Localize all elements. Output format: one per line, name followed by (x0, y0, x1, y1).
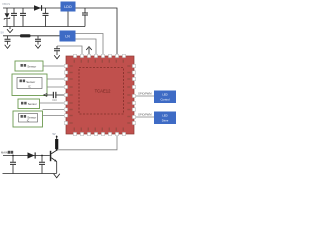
LN regulator U2 (60, 31, 76, 42)
wire emitter down (56, 162, 58, 174)
capacitor C4 (82, 8, 88, 27)
node junction C9 (41, 155, 43, 157)
svg-text:LED: LED (162, 93, 167, 97)
power arrow VCC pin (86, 47, 92, 54)
LED driver block lower (154, 112, 176, 125)
LDO regulator U1 (61, 2, 76, 12)
wire sensor4 to pin lower (43, 115, 65, 117)
svg-text:Drive: Drive (162, 118, 169, 122)
wire ground rail top (3, 26, 85, 28)
wire rail second row (3, 35, 60, 37)
net arrow left (44, 94, 47, 97)
IC U3 thermal pad dashed (79, 68, 124, 115)
svg-text:5V: 5V (1, 30, 5, 34)
capacitor C1 (11, 8, 17, 27)
net label MAIN comm (1, 151, 13, 155)
resistor R1 (55, 136, 58, 150)
svg-text:IC: IC (27, 120, 30, 123)
svg-text:Sensor: Sensor (26, 80, 35, 84)
node collector junction (56, 149, 58, 151)
svg-text:TCAE12: TCAE12 (95, 88, 111, 93)
IC left pins (64, 64, 67, 124)
svg-text:5V: 5V (53, 133, 56, 136)
node dot above resistor (56, 136, 58, 138)
IC top pins (73, 54, 125, 57)
ground symbol top section (7, 27, 13, 33)
wire LN output upper (76, 34, 104, 55)
wire input rail top (3, 7, 61, 9)
svg-text:LN: LN (65, 35, 70, 39)
transistor Q1 (50, 150, 57, 161)
capacitor C3 (43, 8, 49, 27)
wire MAIN comm line (3, 155, 50, 157)
svg-text:IC: IC (28, 85, 31, 89)
svg-text:MAIN: MAIN (1, 151, 8, 155)
wire sensor4 to pin upper (43, 109, 65, 111)
capacitor C5 (5, 36, 11, 49)
TVS diode D1 (4, 8, 10, 27)
ground symbol bottom (54, 174, 60, 178)
svg-text:Sensor: Sensor (28, 102, 37, 106)
wire bottom ground rail (3, 173, 57, 175)
capacitor C9 (39, 156, 45, 174)
diode D3 (28, 152, 36, 158)
ferrite bead FB1 (20, 34, 31, 37)
sensor block 2 (12, 74, 47, 96)
capacitor C6 (35, 36, 41, 49)
LED driver block upper (154, 91, 176, 104)
wire LDO output to IC pin (76, 8, 118, 54)
node junction C8 (12, 155, 14, 157)
sensor block 4 (13, 111, 43, 127)
capacitor C8 (10, 156, 16, 174)
sensor block 1 (15, 61, 43, 71)
capacitor C2 (20, 8, 26, 27)
IC right pins (132, 64, 135, 124)
capacitor C10 series (52, 92, 57, 102)
wire decoupling line to IC (57, 46, 82, 54)
wire LN output lower (76, 39, 97, 54)
wire GPIO PWM lower (136, 116, 154, 118)
svg-text:GPIO/PWM: GPIO/PWM (138, 113, 152, 117)
wire sensor2 to pin upper (47, 78, 64, 80)
IC bottom pins (73, 132, 125, 135)
svg-text:Control: Control (160, 97, 169, 101)
wire collector loop to IC pin (57, 136, 117, 150)
svg-text:C10: C10 (52, 99, 57, 102)
wire LDO ground stub (67, 12, 69, 27)
svg-text:VBUS: VBUS (2, 2, 10, 6)
IC U3 body (66, 56, 134, 134)
diode D2 (34, 5, 42, 11)
capacitor C7 (54, 46, 60, 59)
wire sensor2 to pin lower (47, 86, 64, 88)
wire sensor1 to pin (43, 65, 64, 67)
sensor block 3 (18, 99, 40, 109)
IC pin name marks (70, 60, 131, 131)
svg-text:GPIO/PWM: GPIO/PWM (138, 92, 152, 96)
svg-text:LED: LED (162, 114, 167, 118)
wire GPIO PWM upper (136, 95, 154, 97)
svg-text:Sensor: Sensor (27, 64, 36, 68)
wire sensor3 to pin (40, 102, 65, 104)
svg-text:LDO: LDO (64, 5, 72, 9)
wire arrow to capacitor (47, 94, 64, 96)
